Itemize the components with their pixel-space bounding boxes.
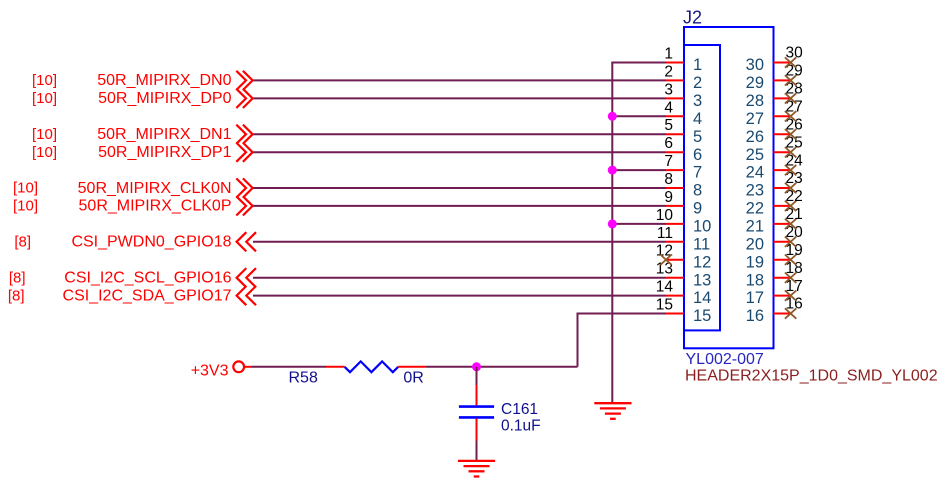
capacitor C161 plates xyxy=(459,405,494,408)
pin 11 stub xyxy=(666,241,684,243)
pin 12 stub xyxy=(666,259,684,261)
pin 2 stub xyxy=(666,79,684,81)
svg-text:19: 19 xyxy=(746,253,764,271)
pin 17 no-connect X xyxy=(785,290,796,300)
svg-text:50R_MIPIRX_DP0: 50R_MIPIRX_DP0 xyxy=(98,90,231,107)
svg-text:11: 11 xyxy=(657,225,673,242)
svg-text:50R_MIPIRX_DN1: 50R_MIPIRX_DN1 xyxy=(97,126,231,143)
svg-text:24: 24 xyxy=(746,164,764,182)
off-page connector chevron 50R_MIPIRX_DN0 xyxy=(236,71,252,90)
svg-text:0R: 0R xyxy=(403,369,423,386)
svg-text:5: 5 xyxy=(693,128,702,146)
capacitor C161 top pin xyxy=(476,385,478,405)
svg-text:22: 22 xyxy=(746,200,764,218)
svg-text:14: 14 xyxy=(693,289,711,307)
svg-text:C161: C161 xyxy=(501,401,538,418)
wire net CSI_I2C_SDA_GPIO17 xyxy=(253,295,666,297)
svg-text:R58: R58 xyxy=(289,369,318,386)
off-page connector chevron 50R_MIPIRX_DP1 xyxy=(236,143,252,162)
off-page connector chevron CSI_I2C_SCL_GPIO16 xyxy=(237,268,256,287)
junction at C161 tap xyxy=(472,362,481,371)
svg-text:[8]: [8] xyxy=(14,234,31,251)
svg-text:26: 26 xyxy=(746,128,764,146)
svg-text:10: 10 xyxy=(693,218,711,236)
svg-text:50R_MIPIRX_DP1: 50R_MIPIRX_DP1 xyxy=(98,144,231,161)
off-page connector chevron CSI_PWDN0_GPIO18 xyxy=(237,232,256,251)
pin 30 stub xyxy=(774,62,791,64)
pin 15 stub xyxy=(666,313,684,315)
svg-text:15: 15 xyxy=(693,307,711,325)
svg-text:1: 1 xyxy=(664,46,673,63)
pin 18 stub xyxy=(774,277,791,279)
pin 25 no-connect X xyxy=(785,147,796,157)
off-page connector chevron 50R_MIPIRX_CLK0P xyxy=(236,196,252,215)
svg-text:[8]: [8] xyxy=(8,287,25,304)
off-page connector chevron 50R_MIPIRX_DN1 xyxy=(236,125,252,144)
svg-text:4: 4 xyxy=(664,99,673,116)
pin 20 stub xyxy=(774,241,791,243)
pin 7 stub xyxy=(666,169,684,171)
connector J2 inner pin-1 column box xyxy=(684,45,720,330)
power port +3V3 pin stub xyxy=(244,366,252,368)
svg-text:15: 15 xyxy=(656,297,673,314)
wire C161 to ground xyxy=(476,441,478,461)
svg-text:29: 29 xyxy=(746,74,764,92)
pin 4 stub xyxy=(666,115,684,117)
pin 26 no-connect X xyxy=(785,129,796,139)
pin 16 no-connect X xyxy=(785,308,796,318)
svg-text:21: 21 xyxy=(746,218,764,236)
pin 8 stub xyxy=(666,187,684,189)
svg-text:2: 2 xyxy=(664,63,673,80)
pin 18 no-connect X xyxy=(785,273,796,283)
wire GND vertical bus xyxy=(611,63,613,404)
wire R58 to junction xyxy=(425,366,577,368)
pin 16 stub xyxy=(774,313,791,315)
svg-text:20: 20 xyxy=(746,235,764,253)
svg-text:[10]: [10] xyxy=(32,144,57,161)
pin 21 no-connect X xyxy=(785,219,796,229)
junction on bus at pin 7 row xyxy=(608,166,617,175)
pin 24 no-connect X xyxy=(785,165,796,175)
pin 28 stub xyxy=(774,97,791,99)
svg-text:13: 13 xyxy=(693,271,711,289)
ground symbol (C161) xyxy=(458,461,495,477)
svg-text:4: 4 xyxy=(693,110,702,128)
svg-text:[10]: [10] xyxy=(32,126,57,143)
svg-text:27: 27 xyxy=(746,110,764,128)
wire net CSI_I2C_SCL_GPIO16 xyxy=(253,277,666,279)
svg-text:[10]: [10] xyxy=(13,198,38,215)
pin 29 no-connect X xyxy=(785,75,796,85)
svg-text:8: 8 xyxy=(693,182,702,200)
power port +3V3 circle xyxy=(233,361,244,372)
svg-text:14: 14 xyxy=(656,279,674,296)
pin 12 no-connect X xyxy=(660,255,671,265)
wire net 50R_MIPIRX_DP0 xyxy=(253,97,666,99)
pin 9 stub xyxy=(666,205,684,207)
svg-text:CSI_I2C_SDA_GPIO17: CSI_I2C_SDA_GPIO17 xyxy=(63,287,232,304)
svg-text:50R_MIPIRX_CLK0N: 50R_MIPIRX_CLK0N xyxy=(78,180,232,197)
svg-text:7: 7 xyxy=(664,153,673,170)
wire +3V3 to R58 xyxy=(252,366,327,368)
wire bus to pin 7 xyxy=(612,169,666,171)
off-page connector chevron 50R_MIPIRX_DP0 xyxy=(236,89,252,108)
pin 28 no-connect X xyxy=(785,93,796,103)
svg-text:6: 6 xyxy=(693,146,702,164)
pin 26 stub xyxy=(774,133,791,135)
svg-text:50R_MIPIRX_CLK0P: 50R_MIPIRX_CLK0P xyxy=(79,198,232,215)
svg-text:J2: J2 xyxy=(683,8,702,28)
svg-text:11: 11 xyxy=(693,235,710,253)
pin 27 stub xyxy=(774,115,791,117)
wire junction down to C161 xyxy=(476,367,478,385)
svg-text:18: 18 xyxy=(746,271,764,289)
pin 19 stub xyxy=(774,259,791,261)
svg-text:6: 6 xyxy=(664,135,673,152)
svg-text:8: 8 xyxy=(664,171,673,188)
svg-text:CSI_PWDN0_GPIO18: CSI_PWDN0_GPIO18 xyxy=(71,234,231,251)
svg-text:[10]: [10] xyxy=(13,180,38,197)
resistor R58 left pin xyxy=(326,366,345,368)
pin 27 no-connect X xyxy=(785,111,796,121)
wire net 50R_MIPIRX_CLK0N xyxy=(253,187,666,189)
svg-text:CSI_I2C_SCL_GPIO16: CSI_I2C_SCL_GPIO16 xyxy=(64,270,231,287)
svg-text:50R_MIPIRX_DN0: 50R_MIPIRX_DN0 xyxy=(97,72,231,89)
pin 1 stub xyxy=(666,62,684,64)
resistor R58 body xyxy=(345,361,399,372)
pin 5 stub xyxy=(666,133,684,135)
svg-text:HEADER2X15P_1D0_SMD_YL002: HEADER2X15P_1D0_SMD_YL002 xyxy=(685,367,938,384)
pin 24 stub xyxy=(774,169,791,171)
pin 22 stub xyxy=(774,205,791,207)
pin 19 no-connect X xyxy=(785,255,796,265)
connector J2 outer body xyxy=(684,27,774,348)
pin 23 no-connect X xyxy=(785,183,796,193)
svg-text:+3V3: +3V3 xyxy=(191,363,229,380)
svg-text:7: 7 xyxy=(693,164,702,182)
wire net 50R_MIPIRX_DN1 xyxy=(253,133,666,135)
svg-text:5: 5 xyxy=(664,117,673,134)
pin 14 stub xyxy=(666,295,684,297)
svg-text:[10]: [10] xyxy=(32,72,57,89)
svg-text:30: 30 xyxy=(786,45,804,62)
svg-text:12: 12 xyxy=(693,253,711,271)
svg-text:0.1uF: 0.1uF xyxy=(501,417,541,434)
svg-text:25: 25 xyxy=(746,146,764,164)
svg-text:[8]: [8] xyxy=(9,269,26,286)
ground symbol (bus) xyxy=(594,403,631,419)
pin 3 stub xyxy=(666,97,684,99)
wire net 50R_MIPIRX_DP1 xyxy=(253,151,666,153)
svg-text:28: 28 xyxy=(746,92,764,110)
pin 6 stub xyxy=(666,151,684,153)
pin 30 no-connect X xyxy=(785,57,796,67)
wire net 50R_MIPIRX_CLK0P xyxy=(253,205,666,207)
wire bus to pin 4 xyxy=(612,115,666,117)
off-page connector chevron 50R_MIPIRX_CLK0N xyxy=(236,178,252,197)
wire bus to pin 10 xyxy=(612,223,666,225)
pin 13 stub xyxy=(666,277,684,279)
svg-text:16: 16 xyxy=(746,307,764,325)
resistor R58 right pin xyxy=(398,366,425,368)
wire rail up to pin 15 xyxy=(578,314,667,367)
junction on bus at pin 4 row xyxy=(608,112,617,121)
svg-text:YL002-007: YL002-007 xyxy=(686,351,764,368)
pin 10 stub xyxy=(666,223,684,225)
wire net CSI_PWDN0_GPIO18 xyxy=(253,241,666,243)
wire net 50R_MIPIRX_DN0 xyxy=(253,79,666,81)
svg-text:3: 3 xyxy=(693,92,702,110)
capacitor C161 bottom pin xyxy=(476,419,478,441)
svg-text:23: 23 xyxy=(746,182,764,200)
pin 22 no-connect X xyxy=(785,201,796,211)
off-page connector chevron CSI_I2C_SDA_GPIO17 xyxy=(237,286,256,305)
svg-text:1: 1 xyxy=(693,56,702,74)
pin 20 no-connect X xyxy=(785,237,796,247)
wire bus to pin 1 xyxy=(611,62,666,64)
svg-text:2: 2 xyxy=(693,74,702,92)
svg-text:10: 10 xyxy=(656,207,674,224)
svg-text:30: 30 xyxy=(746,56,764,74)
junction on bus at pin 10 row xyxy=(608,219,617,228)
pin 23 stub xyxy=(774,187,791,189)
svg-text:9: 9 xyxy=(693,200,702,218)
pin 29 stub xyxy=(774,79,791,81)
svg-text:[10]: [10] xyxy=(32,90,57,107)
pin 25 stub xyxy=(774,151,791,153)
pin 21 stub xyxy=(774,223,791,225)
svg-text:9: 9 xyxy=(664,189,673,206)
pin 17 stub xyxy=(774,295,791,297)
svg-text:17: 17 xyxy=(746,289,764,307)
svg-text:3: 3 xyxy=(664,81,673,98)
